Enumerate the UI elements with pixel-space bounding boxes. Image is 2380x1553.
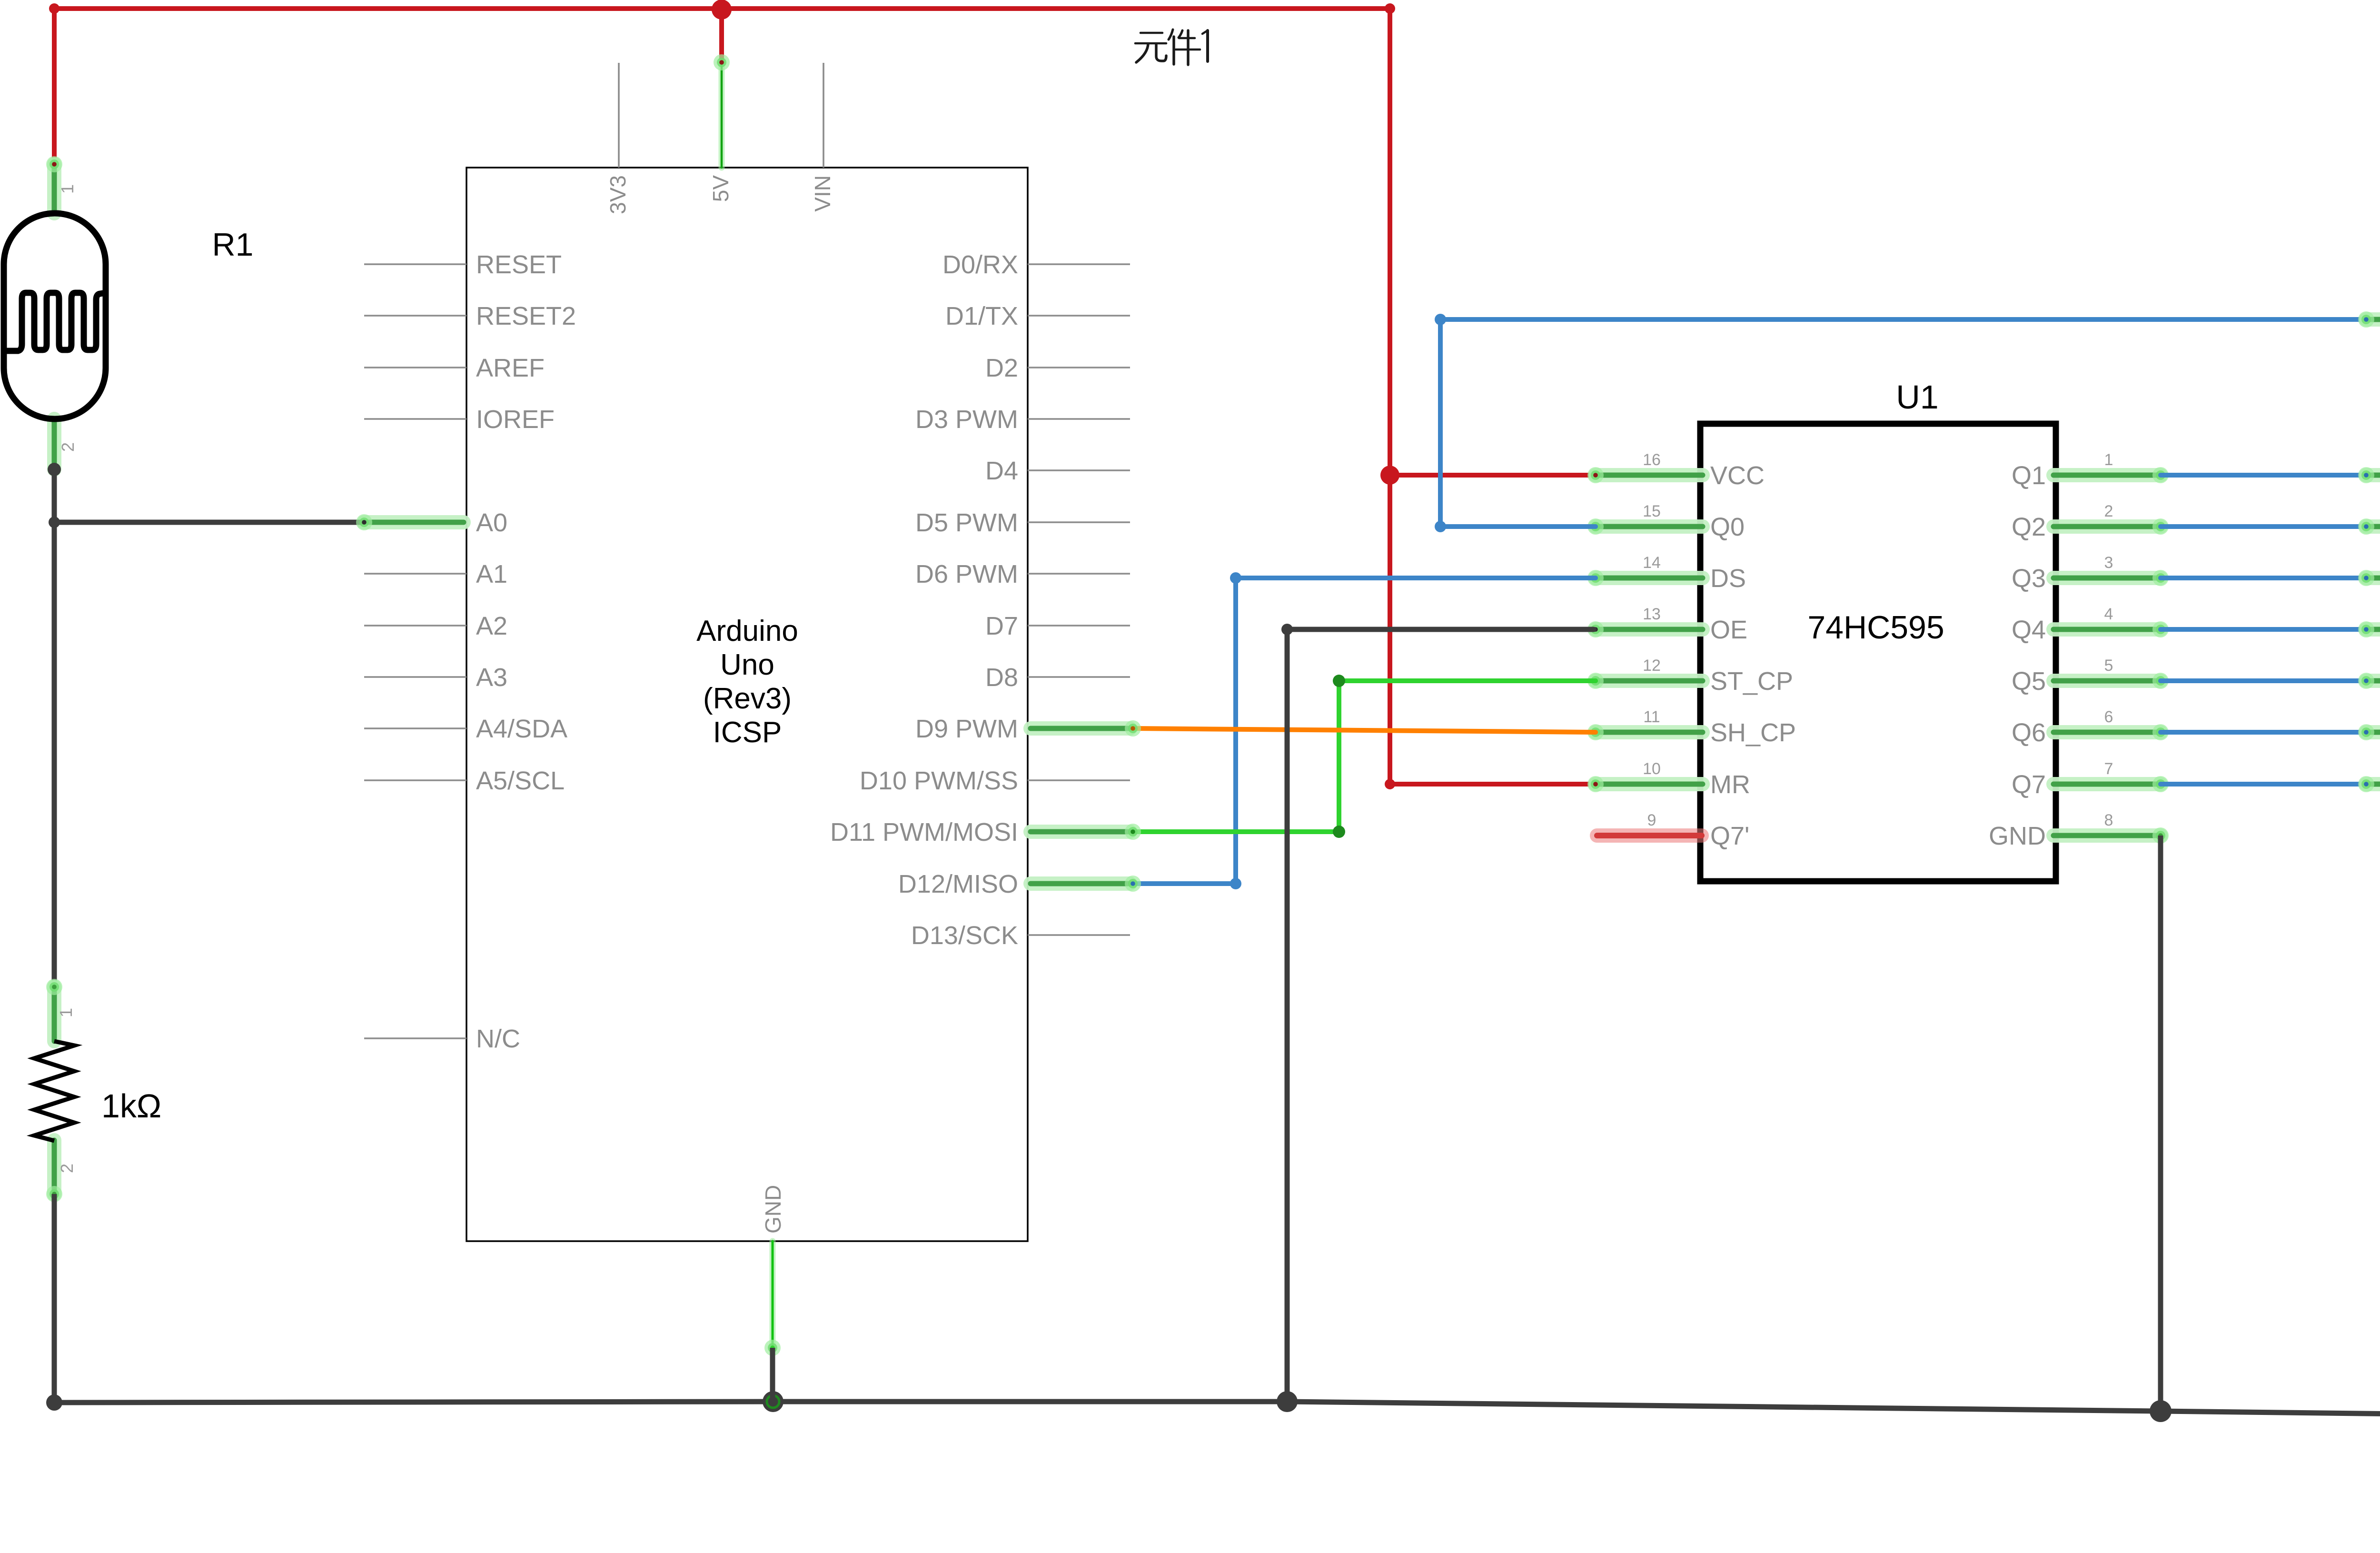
svg-text:(Rev3): (Rev3): [703, 682, 792, 715]
svg-text:A0: A0: [476, 508, 507, 537]
svg-text:5: 5: [2104, 657, 2113, 675]
svg-text:2: 2: [58, 442, 78, 452]
svg-text:Q3: Q3: [2012, 564, 2046, 593]
svg-text:R1: R1: [212, 227, 254, 263]
svg-text:A3: A3: [476, 663, 507, 692]
svg-text:D9 PWM: D9 PWM: [915, 715, 1018, 743]
svg-text:Q7: Q7: [2012, 770, 2046, 799]
svg-text:U1: U1: [1896, 378, 1938, 416]
svg-text:A2: A2: [476, 612, 507, 640]
svg-text:D12/MISO: D12/MISO: [898, 870, 1018, 898]
svg-text:D10 PWM/SS: D10 PWM/SS: [860, 767, 1018, 795]
svg-text:9: 9: [1647, 811, 1656, 829]
svg-text:Arduino: Arduino: [696, 615, 798, 647]
svg-text:ICSP: ICSP: [713, 716, 782, 749]
svg-text:D4: D4: [985, 457, 1018, 485]
svg-text:1: 1: [2104, 451, 2113, 469]
svg-text:A4/SDA: A4/SDA: [476, 715, 567, 743]
svg-text:N/C: N/C: [476, 1025, 520, 1053]
svg-text:D6 PWM: D6 PWM: [915, 560, 1018, 588]
svg-text:Q2: Q2: [2012, 513, 2046, 541]
svg-text:Q0: Q0: [1710, 513, 1745, 541]
svg-text:D5 PWM: D5 PWM: [915, 508, 1018, 537]
svg-text:Q5: Q5: [2012, 667, 2046, 696]
svg-text:D2: D2: [985, 354, 1018, 382]
svg-text:15: 15: [1643, 502, 1661, 520]
svg-text:14: 14: [1643, 554, 1661, 572]
svg-text:13: 13: [1643, 605, 1661, 623]
svg-text:D0/RX: D0/RX: [942, 250, 1018, 279]
svg-text:1: 1: [56, 1008, 76, 1017]
svg-text:8: 8: [2104, 811, 2113, 829]
svg-text:1: 1: [58, 184, 77, 194]
svg-text:GND: GND: [1989, 822, 2046, 850]
svg-text:2: 2: [2104, 502, 2113, 520]
svg-text:6: 6: [2104, 708, 2113, 726]
svg-text:GND: GND: [761, 1185, 785, 1234]
svg-text:OE: OE: [1710, 616, 1747, 644]
svg-text:RESET: RESET: [476, 250, 562, 279]
svg-text:5V: 5V: [708, 175, 733, 202]
svg-text:D13/SCK: D13/SCK: [911, 921, 1018, 950]
svg-text:A1: A1: [476, 560, 507, 588]
svg-text:D1/TX: D1/TX: [945, 302, 1018, 330]
svg-text:Uno: Uno: [720, 648, 774, 681]
svg-text:3V3: 3V3: [605, 175, 630, 214]
svg-text:74HC595: 74HC595: [1807, 609, 1944, 646]
svg-text:ST_CP: ST_CP: [1710, 667, 1793, 696]
svg-text:D8: D8: [985, 663, 1018, 692]
svg-text:RESET2: RESET2: [476, 302, 576, 330]
svg-text:D11 PWM/MOSI: D11 PWM/MOSI: [830, 818, 1018, 846]
svg-text:VIN: VIN: [810, 175, 835, 212]
svg-text:SH_CP: SH_CP: [1710, 718, 1796, 747]
svg-text:Q4: Q4: [2012, 616, 2046, 644]
svg-text:MR: MR: [1710, 770, 1750, 799]
svg-text:AREF: AREF: [476, 354, 545, 382]
svg-text:DS: DS: [1710, 564, 1746, 593]
svg-text:16: 16: [1643, 451, 1661, 469]
svg-text:VCC: VCC: [1710, 461, 1765, 490]
svg-text:10: 10: [1643, 760, 1661, 778]
svg-text:Q7': Q7': [1710, 822, 1749, 850]
svg-text:Q6: Q6: [2012, 718, 2046, 747]
svg-text:Q1: Q1: [2012, 461, 2046, 490]
svg-text:D3 PWM: D3 PWM: [915, 405, 1018, 434]
svg-text:1kΩ: 1kΩ: [101, 1087, 161, 1125]
svg-text:D7: D7: [985, 612, 1018, 640]
svg-text:7: 7: [2104, 760, 2113, 778]
svg-text:A5/SCL: A5/SCL: [476, 767, 565, 795]
svg-text:IOREF: IOREF: [476, 405, 555, 434]
svg-text:11: 11: [1643, 708, 1660, 726]
svg-text:12: 12: [1643, 657, 1661, 675]
svg-text:2: 2: [57, 1164, 77, 1173]
svg-text:3: 3: [2104, 554, 2113, 572]
svg-text:4: 4: [2104, 605, 2113, 623]
